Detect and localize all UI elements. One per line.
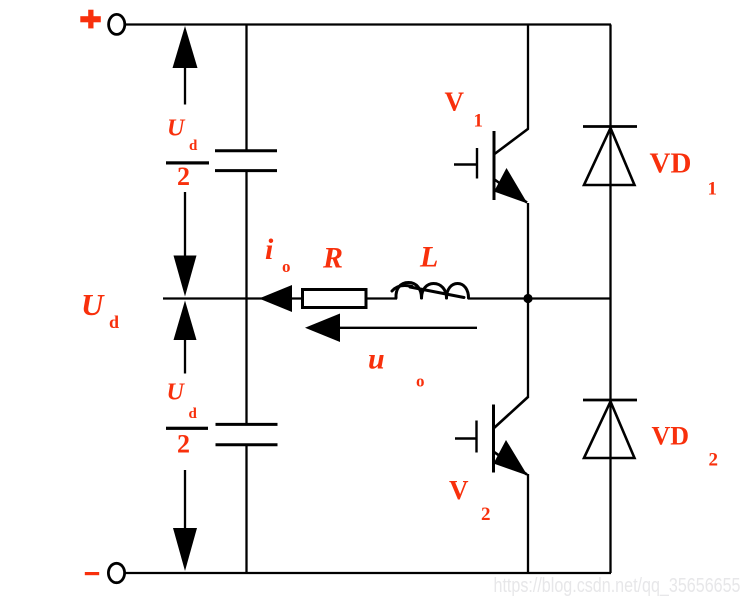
svg-text:U: U bbox=[167, 380, 186, 406]
svg-text:U: U bbox=[81, 287, 105, 322]
svg-text:2: 2 bbox=[177, 162, 190, 191]
svg-text:d: d bbox=[189, 138, 198, 154]
svg-text:o: o bbox=[416, 372, 425, 391]
svg-text:V: V bbox=[449, 475, 469, 505]
svg-text:2: 2 bbox=[709, 450, 719, 471]
svg-text:V: V bbox=[445, 87, 465, 117]
svg-text:2: 2 bbox=[481, 504, 491, 525]
svg-text:VD: VD bbox=[652, 422, 690, 451]
svg-text:U: U bbox=[167, 116, 186, 142]
svg-text:d: d bbox=[189, 406, 198, 422]
svg-text:o: o bbox=[282, 257, 291, 276]
svg-text:1: 1 bbox=[474, 111, 484, 132]
svg-text:R: R bbox=[322, 242, 343, 275]
svg-text:1: 1 bbox=[708, 179, 718, 200]
svg-text:2: 2 bbox=[177, 430, 190, 459]
svg-text:https://blog.csdn.net/qq_35656: https://blog.csdn.net/qq_35656655 bbox=[494, 575, 741, 597]
svg-text:u: u bbox=[368, 343, 385, 376]
svg-text:i: i bbox=[265, 233, 274, 266]
svg-text:d: d bbox=[109, 312, 119, 332]
svg-text:VD: VD bbox=[650, 148, 692, 180]
svg-text:L: L bbox=[419, 241, 438, 274]
